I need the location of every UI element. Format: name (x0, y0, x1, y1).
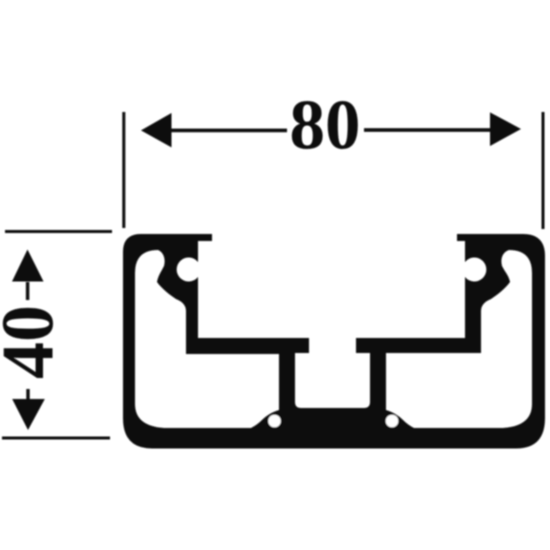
dim 40: line lower segment (26, 389, 29, 401)
dim 40: bottom extension line (2, 437, 110, 440)
dim 80: left extension line (122, 112, 125, 228)
relief notch right (386, 415, 399, 428)
dim 40: up arrowhead (12, 250, 44, 282)
relief notch left (268, 415, 281, 428)
svg-text:40: 40 (0, 305, 70, 379)
extrusion profile cross-section (123, 234, 545, 449)
dim 80: line right segment (364, 128, 491, 132)
dim 80: line left segment (168, 129, 287, 133)
dim 40: down arrowhead (12, 399, 45, 430)
dim 80: left arrowhead (141, 113, 172, 147)
svg-text:80: 80 (290, 87, 361, 165)
dim 80: right extension line (542, 112, 545, 229)
dim 40: top extension line (5, 230, 112, 233)
dim 40: line upper segment (26, 282, 29, 300)
dim 80: right arrowhead (490, 112, 521, 146)
